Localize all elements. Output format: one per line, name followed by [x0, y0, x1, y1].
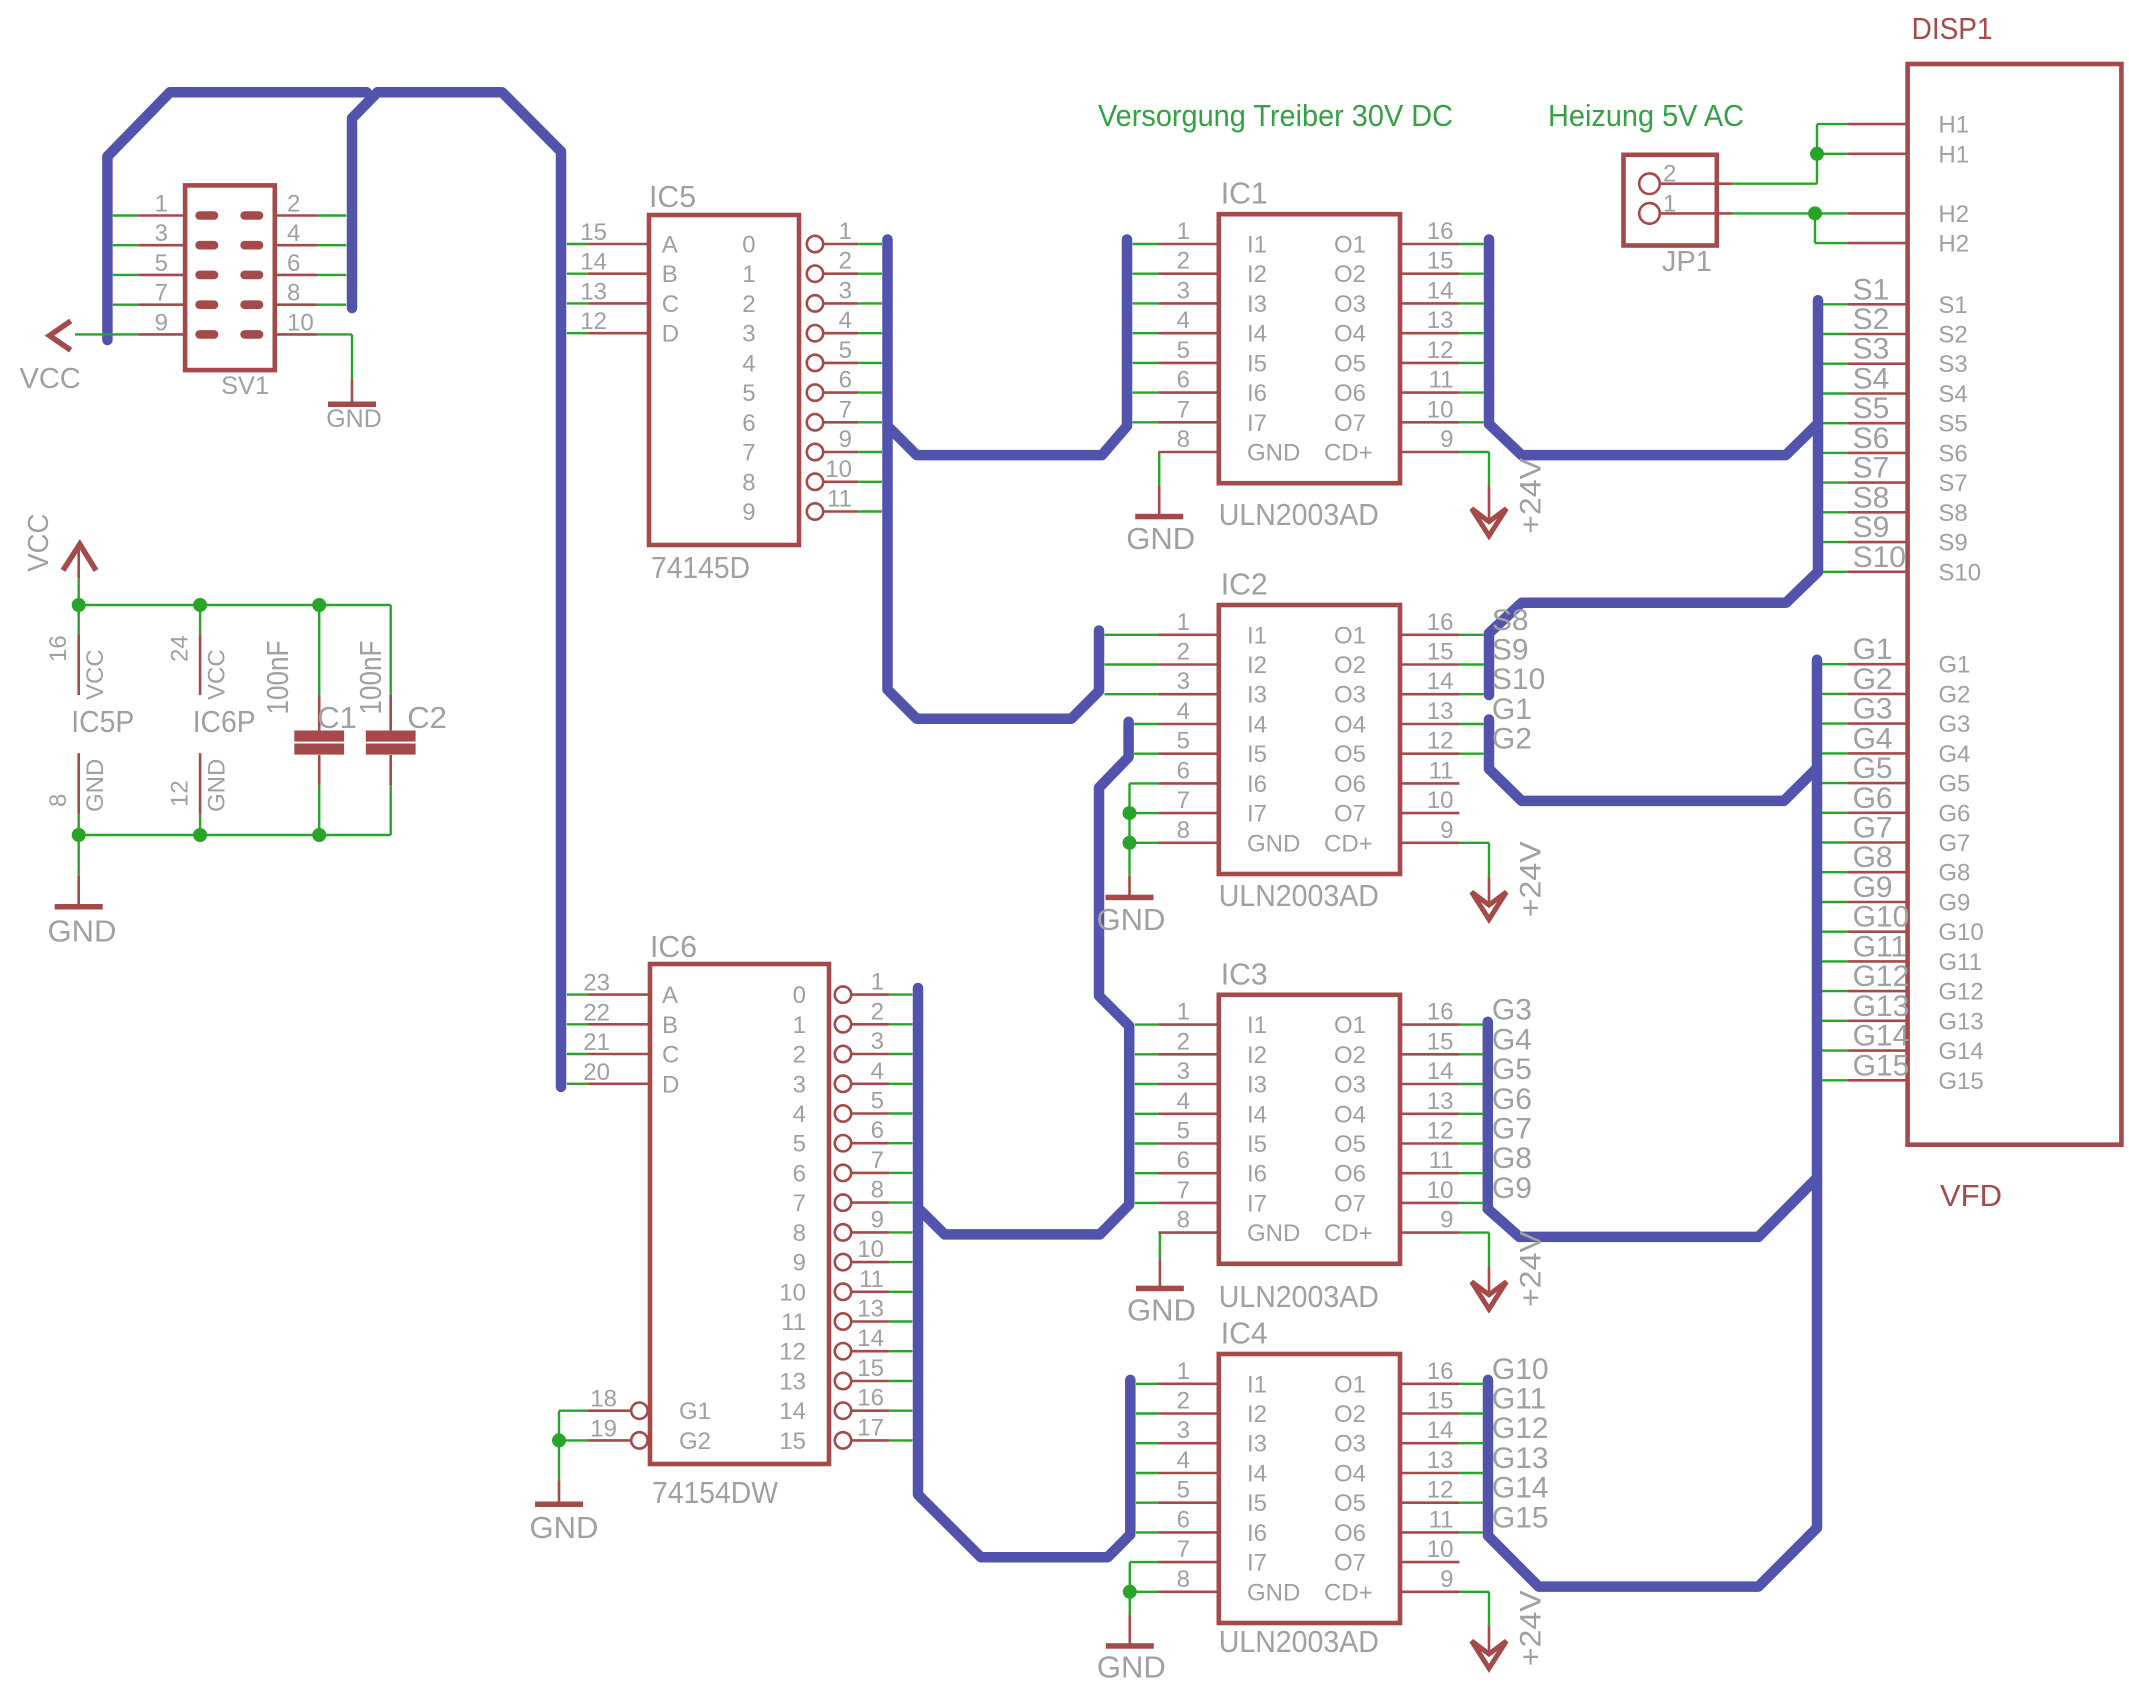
svg-text:S10: S10	[1938, 559, 1981, 586]
svg-text:8: 8	[793, 1220, 806, 1247]
svg-text:G4: G4	[1492, 1023, 1532, 1056]
svg-text:2: 2	[287, 191, 300, 218]
svg-text:12: 12	[1427, 337, 1454, 364]
svg-text:S7: S7	[1938, 470, 1967, 497]
svg-text:15: 15	[1427, 1388, 1454, 1415]
svg-text:GND: GND	[48, 914, 117, 949]
svg-text:O4: O4	[1334, 1101, 1366, 1128]
svg-text:I7: I7	[1247, 801, 1267, 828]
svg-text:GND: GND	[1247, 1579, 1300, 1606]
svg-text:7: 7	[1177, 787, 1190, 814]
svg-text:SV1: SV1	[221, 372, 269, 400]
svg-text:O6: O6	[1334, 380, 1366, 407]
svg-text:O3: O3	[1334, 682, 1366, 709]
svg-text:G11: G11	[1938, 949, 1982, 976]
svg-text:G2: G2	[1853, 663, 1893, 696]
svg-text:I7: I7	[1247, 410, 1267, 437]
svg-text:G12: G12	[1853, 960, 1910, 993]
svg-text:Heizung 5V AC: Heizung 5V AC	[1548, 98, 1744, 133]
svg-text:14: 14	[1427, 277, 1454, 304]
svg-text:2: 2	[839, 248, 852, 275]
svg-text:IC3: IC3	[1221, 956, 1268, 991]
svg-text:G3: G3	[1492, 994, 1532, 1027]
svg-text:S7: S7	[1853, 452, 1890, 485]
svg-text:GND: GND	[530, 1510, 599, 1545]
svg-text:B: B	[662, 261, 678, 288]
svg-text:10: 10	[1427, 787, 1454, 814]
svg-text:G6: G6	[1492, 1083, 1532, 1116]
svg-text:I3: I3	[1247, 1072, 1267, 1099]
svg-text:1: 1	[1177, 609, 1190, 636]
svg-text:2: 2	[793, 1042, 806, 1069]
svg-text:11: 11	[1429, 1147, 1454, 1174]
svg-text:IC6: IC6	[650, 929, 697, 964]
svg-text:10: 10	[1427, 1177, 1454, 1204]
svg-text:G8: G8	[1492, 1142, 1532, 1175]
svg-text:12: 12	[1427, 728, 1454, 755]
svg-text:O1: O1	[1334, 622, 1366, 649]
svg-text:O5: O5	[1334, 1131, 1366, 1158]
svg-text:C1: C1	[317, 700, 357, 735]
svg-text:4: 4	[871, 1058, 884, 1085]
svg-text:O5: O5	[1334, 741, 1366, 768]
svg-text:8: 8	[1177, 1566, 1190, 1593]
svg-text:6: 6	[1177, 1147, 1190, 1174]
svg-text:3: 3	[1177, 1058, 1190, 1085]
svg-text:S4: S4	[1938, 381, 1967, 408]
svg-text:1: 1	[1177, 218, 1190, 245]
svg-text:22: 22	[583, 999, 610, 1026]
svg-text:7: 7	[155, 280, 168, 307]
svg-text:9: 9	[155, 309, 168, 336]
svg-text:G15: G15	[1492, 1501, 1549, 1534]
svg-text:G8: G8	[1853, 841, 1893, 874]
svg-text:12: 12	[1427, 1477, 1454, 1504]
svg-text:8: 8	[742, 469, 755, 496]
svg-text:+24V: +24V	[1515, 458, 1548, 534]
svg-text:O1: O1	[1334, 232, 1366, 259]
svg-text:5: 5	[1177, 728, 1190, 755]
svg-text:4: 4	[1177, 1088, 1190, 1115]
svg-text:9: 9	[1440, 817, 1453, 844]
svg-text:G13: G13	[1853, 990, 1910, 1023]
svg-text:S9: S9	[1492, 634, 1529, 667]
svg-text:10: 10	[857, 1236, 884, 1263]
svg-text:VFD: VFD	[1940, 1178, 2002, 1213]
svg-text:21: 21	[583, 1029, 610, 1056]
svg-text:23: 23	[583, 970, 610, 997]
svg-text:S10: S10	[1492, 663, 1545, 696]
svg-text:5: 5	[1177, 337, 1190, 364]
svg-text:12: 12	[1427, 1118, 1454, 1145]
svg-text:4: 4	[287, 220, 300, 247]
svg-text:O1: O1	[1334, 1371, 1366, 1398]
svg-text:100nF: 100nF	[353, 641, 388, 715]
svg-text:A: A	[662, 982, 678, 1009]
svg-text:9: 9	[839, 426, 852, 453]
svg-text:3: 3	[1177, 1417, 1190, 1444]
svg-text:2: 2	[1177, 1028, 1190, 1055]
svg-text:15: 15	[1427, 1028, 1454, 1055]
svg-text:16: 16	[857, 1385, 884, 1412]
svg-text:I2: I2	[1247, 1042, 1267, 1069]
svg-text:11: 11	[1429, 367, 1454, 394]
svg-text:Versorgung Treiber 30V DC: Versorgung Treiber 30V DC	[1098, 98, 1453, 133]
svg-text:1: 1	[871, 969, 884, 996]
svg-text:G3: G3	[1938, 711, 1970, 738]
svg-text:H2: H2	[1938, 231, 1969, 258]
svg-text:S9: S9	[1853, 511, 1890, 544]
svg-text:7: 7	[871, 1147, 884, 1174]
svg-text:G1: G1	[679, 1398, 711, 1425]
svg-text:G6: G6	[1853, 782, 1893, 815]
svg-text:9: 9	[871, 1206, 884, 1233]
svg-text:O5: O5	[1334, 350, 1366, 377]
svg-text:4: 4	[1177, 307, 1190, 334]
svg-text:3: 3	[839, 277, 852, 304]
svg-text:13: 13	[580, 278, 607, 305]
svg-text:GND: GND	[1247, 440, 1300, 467]
svg-text:GND: GND	[1097, 1650, 1166, 1685]
svg-text:CD+: CD+	[1324, 1220, 1373, 1247]
svg-text:S1: S1	[1853, 273, 1890, 306]
svg-text:G6: G6	[1938, 800, 1970, 827]
svg-text:15: 15	[580, 219, 607, 246]
svg-text:16: 16	[1427, 999, 1454, 1026]
svg-text:G12: G12	[1938, 979, 1983, 1006]
svg-text:S2: S2	[1853, 303, 1890, 336]
svg-text:IC6P: IC6P	[193, 704, 256, 739]
svg-text:3: 3	[1177, 277, 1190, 304]
svg-text:1: 1	[155, 191, 168, 218]
svg-text:H2: H2	[1938, 201, 1969, 228]
svg-text:ULN2003AD: ULN2003AD	[1219, 497, 1379, 532]
svg-text:15: 15	[1427, 639, 1454, 666]
svg-text:13: 13	[1427, 1447, 1454, 1474]
svg-text:5: 5	[155, 250, 168, 277]
svg-text:S2: S2	[1938, 322, 1967, 349]
svg-text:10: 10	[287, 309, 314, 336]
svg-text:14: 14	[779, 1398, 806, 1425]
svg-text:11: 11	[781, 1309, 806, 1336]
svg-text:4: 4	[742, 350, 755, 377]
svg-text:13: 13	[1427, 1088, 1454, 1115]
svg-text:15: 15	[779, 1428, 806, 1455]
svg-text:I3: I3	[1247, 291, 1267, 318]
svg-text:O6: O6	[1334, 1161, 1366, 1188]
svg-text:2: 2	[871, 998, 884, 1025]
svg-text:VCC: VCC	[203, 649, 230, 700]
svg-text:GND: GND	[1247, 1220, 1300, 1247]
svg-text:G7: G7	[1492, 1113, 1532, 1146]
svg-text:I1: I1	[1247, 1371, 1267, 1398]
svg-text:I3: I3	[1247, 682, 1267, 709]
svg-text:G4: G4	[1938, 741, 1970, 768]
svg-text:5: 5	[793, 1131, 806, 1158]
svg-text:74154DW: 74154DW	[652, 1475, 779, 1510]
svg-text:G15: G15	[1938, 1068, 1983, 1095]
svg-text:GND: GND	[82, 759, 109, 812]
svg-text:1: 1	[742, 261, 755, 288]
svg-text:ULN2003AD: ULN2003AD	[1219, 878, 1379, 913]
svg-text:5: 5	[742, 380, 755, 407]
svg-text:6: 6	[1177, 757, 1190, 784]
svg-text:5: 5	[1177, 1477, 1190, 1504]
svg-text:1: 1	[1663, 190, 1676, 217]
svg-text:6: 6	[1177, 1506, 1190, 1533]
svg-text:G14: G14	[1492, 1472, 1549, 1505]
svg-text:VCC: VCC	[23, 514, 55, 572]
svg-text:GND: GND	[203, 759, 230, 812]
svg-text:20: 20	[583, 1059, 610, 1086]
svg-text:S3: S3	[1853, 333, 1890, 366]
svg-text:11: 11	[827, 486, 852, 513]
svg-text:D: D	[662, 321, 679, 348]
svg-text:10: 10	[825, 456, 852, 483]
svg-text:CD+: CD+	[1324, 1579, 1373, 1606]
svg-text:S5: S5	[1853, 392, 1890, 425]
svg-text:I5: I5	[1247, 741, 1267, 768]
svg-text:H1: H1	[1938, 141, 1969, 168]
svg-text:GND: GND	[1126, 521, 1195, 556]
svg-text:O7: O7	[1334, 1550, 1366, 1577]
svg-text:7: 7	[1177, 396, 1190, 423]
svg-text:8: 8	[871, 1177, 884, 1204]
svg-text:I6: I6	[1247, 1520, 1267, 1547]
svg-text:8: 8	[1177, 1207, 1190, 1234]
svg-text:C2: C2	[407, 700, 447, 735]
svg-text:+24V: +24V	[1515, 1231, 1548, 1307]
svg-text:I6: I6	[1247, 380, 1267, 407]
svg-text:I2: I2	[1247, 261, 1267, 288]
svg-text:16: 16	[1427, 1358, 1454, 1385]
svg-text:C: C	[662, 291, 679, 318]
svg-text:2: 2	[742, 291, 755, 318]
svg-text:I1: I1	[1247, 232, 1267, 259]
svg-text:9: 9	[1440, 426, 1453, 453]
svg-text:7: 7	[793, 1190, 806, 1217]
svg-text:+24V: +24V	[1515, 1590, 1548, 1666]
svg-text:9: 9	[1440, 1207, 1453, 1234]
svg-text:I4: I4	[1247, 1461, 1267, 1488]
svg-text:B: B	[662, 1012, 678, 1039]
svg-text:IC5P: IC5P	[71, 704, 134, 739]
svg-text:10: 10	[779, 1279, 806, 1306]
svg-text:5: 5	[871, 1088, 884, 1115]
svg-text:O3: O3	[1334, 1072, 1366, 1099]
svg-text:GND: GND	[326, 405, 382, 433]
svg-text:6: 6	[287, 250, 300, 277]
svg-text:G15: G15	[1853, 1049, 1910, 1082]
svg-text:8: 8	[1177, 817, 1190, 844]
svg-text:S9: S9	[1938, 530, 1967, 557]
svg-text:G5: G5	[1938, 771, 1970, 798]
svg-text:9: 9	[793, 1250, 806, 1277]
svg-text:G2: G2	[1938, 681, 1970, 708]
svg-text:6: 6	[1177, 367, 1190, 394]
svg-text:O5: O5	[1334, 1490, 1366, 1517]
svg-text:G5: G5	[1492, 1053, 1532, 1086]
svg-text:A: A	[662, 232, 678, 259]
svg-text:5: 5	[839, 337, 852, 364]
svg-text:O2: O2	[1334, 261, 1366, 288]
svg-text:2: 2	[1177, 639, 1190, 666]
svg-text:13: 13	[857, 1296, 884, 1323]
svg-text:I1: I1	[1247, 1012, 1267, 1039]
svg-text:19: 19	[590, 1415, 617, 1442]
svg-text:12: 12	[779, 1339, 806, 1366]
svg-text:CD+: CD+	[1324, 830, 1373, 857]
svg-text:I2: I2	[1247, 1401, 1267, 1428]
svg-text:GND: GND	[1247, 830, 1300, 857]
svg-text:11: 11	[1429, 1506, 1454, 1533]
svg-text:14: 14	[1427, 1417, 1454, 1444]
svg-text:7: 7	[839, 396, 852, 423]
svg-text:13: 13	[1427, 307, 1454, 334]
svg-text:1: 1	[793, 1012, 806, 1039]
svg-text:S6: S6	[1938, 440, 1967, 467]
svg-text:IC5: IC5	[649, 179, 696, 214]
svg-text:G13: G13	[1492, 1442, 1549, 1475]
svg-text:G3: G3	[1853, 693, 1893, 726]
svg-text:14: 14	[1427, 1058, 1454, 1085]
svg-text:11: 11	[859, 1266, 884, 1293]
svg-text:DISP1: DISP1	[1912, 11, 1993, 46]
svg-text:I3: I3	[1247, 1431, 1267, 1458]
svg-text:4: 4	[1177, 1447, 1190, 1474]
svg-text:10: 10	[1427, 1536, 1454, 1563]
svg-text:O2: O2	[1334, 1401, 1366, 1428]
svg-text:9: 9	[742, 499, 755, 526]
svg-text:6: 6	[839, 367, 852, 394]
svg-text:1: 1	[1177, 999, 1190, 1026]
svg-text:S8: S8	[1492, 604, 1529, 637]
svg-text:I2: I2	[1247, 652, 1267, 679]
svg-text:O7: O7	[1334, 801, 1366, 828]
svg-text:G1: G1	[1938, 652, 1970, 679]
svg-text:6: 6	[793, 1160, 806, 1187]
svg-text:4: 4	[793, 1101, 806, 1128]
svg-text:8: 8	[1177, 426, 1190, 453]
svg-text:I5: I5	[1247, 1490, 1267, 1517]
svg-text:O6: O6	[1334, 771, 1366, 798]
svg-text:2: 2	[1177, 248, 1190, 275]
svg-text:6: 6	[871, 1117, 884, 1144]
svg-text:S5: S5	[1938, 411, 1967, 438]
svg-text:G9: G9	[1938, 890, 1970, 917]
svg-text:O4: O4	[1334, 321, 1366, 348]
svg-text:15: 15	[1427, 248, 1454, 275]
svg-text:S10: S10	[1853, 541, 1906, 574]
svg-text:13: 13	[779, 1369, 806, 1396]
svg-text:I7: I7	[1247, 1190, 1267, 1217]
svg-text:2: 2	[1177, 1388, 1190, 1415]
svg-text:8: 8	[45, 794, 72, 807]
svg-text:O3: O3	[1334, 1431, 1366, 1458]
svg-text:14: 14	[857, 1325, 884, 1352]
svg-text:6: 6	[742, 410, 755, 437]
svg-text:G7: G7	[1938, 830, 1970, 857]
svg-text:0: 0	[793, 982, 806, 1009]
svg-text:G1: G1	[1853, 633, 1893, 666]
svg-text:H1: H1	[1938, 112, 1969, 139]
svg-text:G9: G9	[1853, 871, 1893, 904]
svg-text:VCC: VCC	[82, 649, 109, 700]
svg-text:100nF: 100nF	[260, 641, 295, 715]
svg-text:G10: G10	[1853, 901, 1910, 934]
svg-text:G12: G12	[1492, 1412, 1549, 1445]
svg-text:IC1: IC1	[1221, 176, 1268, 211]
svg-text:12: 12	[166, 780, 193, 807]
svg-text:I1: I1	[1247, 622, 1267, 649]
svg-text:O2: O2	[1334, 1042, 1366, 1069]
svg-text:IC2: IC2	[1221, 567, 1268, 602]
svg-text:16: 16	[45, 635, 72, 662]
svg-text:GND: GND	[1097, 902, 1166, 937]
svg-text:0: 0	[742, 232, 755, 259]
svg-text:S4: S4	[1853, 363, 1890, 396]
svg-text:O2: O2	[1334, 652, 1366, 679]
svg-text:S8: S8	[1938, 500, 1967, 527]
svg-text:JP1: JP1	[1662, 246, 1712, 278]
svg-text:G1: G1	[1492, 693, 1532, 726]
svg-text:9: 9	[1440, 1566, 1453, 1593]
svg-text:7: 7	[1177, 1536, 1190, 1563]
svg-text:3: 3	[742, 321, 755, 348]
svg-text:S3: S3	[1938, 351, 1967, 378]
svg-text:GND: GND	[1127, 1293, 1196, 1328]
svg-text:3: 3	[1177, 668, 1190, 695]
svg-text:G2: G2	[679, 1428, 711, 1455]
svg-text:74145D: 74145D	[651, 550, 750, 585]
svg-text:11: 11	[1429, 757, 1454, 784]
svg-text:I7: I7	[1247, 1550, 1267, 1577]
svg-text:8: 8	[287, 280, 300, 307]
svg-text:O3: O3	[1334, 291, 1366, 318]
svg-text:3: 3	[871, 1028, 884, 1055]
svg-text:3: 3	[793, 1071, 806, 1098]
svg-text:G7: G7	[1853, 812, 1893, 845]
svg-text:1: 1	[839, 218, 852, 245]
svg-text:3: 3	[155, 220, 168, 247]
svg-text:7: 7	[742, 440, 755, 467]
svg-text:14: 14	[580, 249, 607, 276]
svg-text:I4: I4	[1247, 1101, 1267, 1128]
svg-text:ULN2003AD: ULN2003AD	[1219, 1624, 1379, 1659]
svg-text:5: 5	[1177, 1118, 1190, 1145]
svg-text:14: 14	[1427, 668, 1454, 695]
svg-text:ULN2003AD: ULN2003AD	[1219, 1279, 1379, 1314]
svg-text:12: 12	[580, 308, 607, 335]
svg-text:4: 4	[1177, 698, 1190, 725]
svg-text:+24V: +24V	[1515, 841, 1548, 917]
svg-text:I6: I6	[1247, 1161, 1267, 1188]
svg-text:15: 15	[857, 1355, 884, 1382]
svg-text:13: 13	[1427, 698, 1454, 725]
svg-text:G10: G10	[1938, 919, 1983, 946]
svg-text:G5: G5	[1853, 752, 1893, 785]
svg-text:10: 10	[1427, 396, 1454, 423]
svg-text:IC4: IC4	[1221, 1316, 1268, 1351]
svg-text:CD+: CD+	[1324, 440, 1373, 467]
svg-text:G14: G14	[1853, 1020, 1910, 1053]
svg-text:S1: S1	[1938, 292, 1967, 319]
svg-text:1: 1	[1177, 1358, 1190, 1385]
svg-text:G9: G9	[1492, 1172, 1532, 1205]
svg-text:O4: O4	[1334, 712, 1366, 739]
svg-text:G14: G14	[1938, 1038, 1983, 1065]
svg-text:G10: G10	[1492, 1353, 1549, 1386]
